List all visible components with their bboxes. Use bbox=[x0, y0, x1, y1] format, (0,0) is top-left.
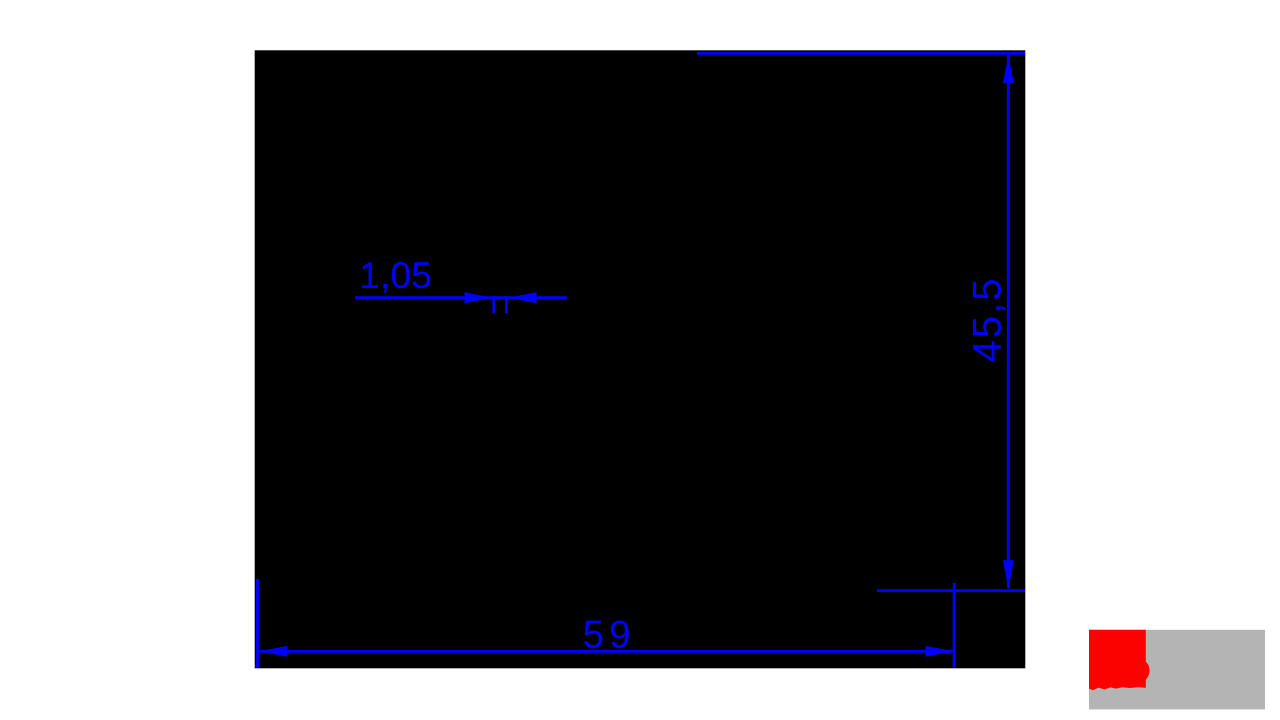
extension line top (45,5 dimension, top witness line) bbox=[697, 52, 1025, 55]
svg-text:1,05: 1,05 bbox=[359, 255, 432, 296]
logo red square with scalloped bottom bbox=[1089, 630, 1150, 691]
arrowhead pointing left (1,05 right arrow) bbox=[509, 292, 537, 303]
extension line left (59 dimension, left witness line) bbox=[256, 579, 259, 668]
svg-text:45,5: 45,5 bbox=[965, 278, 1009, 362]
extension line bottom-right (45,5 dimension, bottom witness line) bbox=[877, 589, 1025, 592]
dimension line 1,05 (horizontal, arrows outside) bbox=[355, 296, 567, 299]
witness tick left (1,05) bbox=[492, 296, 495, 313]
part body (black filled rectangle) bbox=[255, 50, 1026, 668]
dimension line 59 (horizontal) bbox=[259, 650, 954, 653]
arrowhead up (45,5 top) bbox=[1003, 55, 1014, 83]
logo background plate (gray) bbox=[1089, 630, 1265, 710]
arrowhead right (59) bbox=[926, 646, 954, 657]
arrowhead pointing right (1,05 left arrow) bbox=[465, 292, 493, 303]
arrowhead down (45,5 bottom) bbox=[1003, 560, 1014, 588]
arrowhead left (59) bbox=[259, 646, 287, 657]
extension line right (59 dimension, right witness line) bbox=[953, 583, 956, 668]
witness tick right (1,05) bbox=[505, 296, 508, 313]
dimension line 45,5 (vertical) bbox=[1007, 55, 1010, 589]
